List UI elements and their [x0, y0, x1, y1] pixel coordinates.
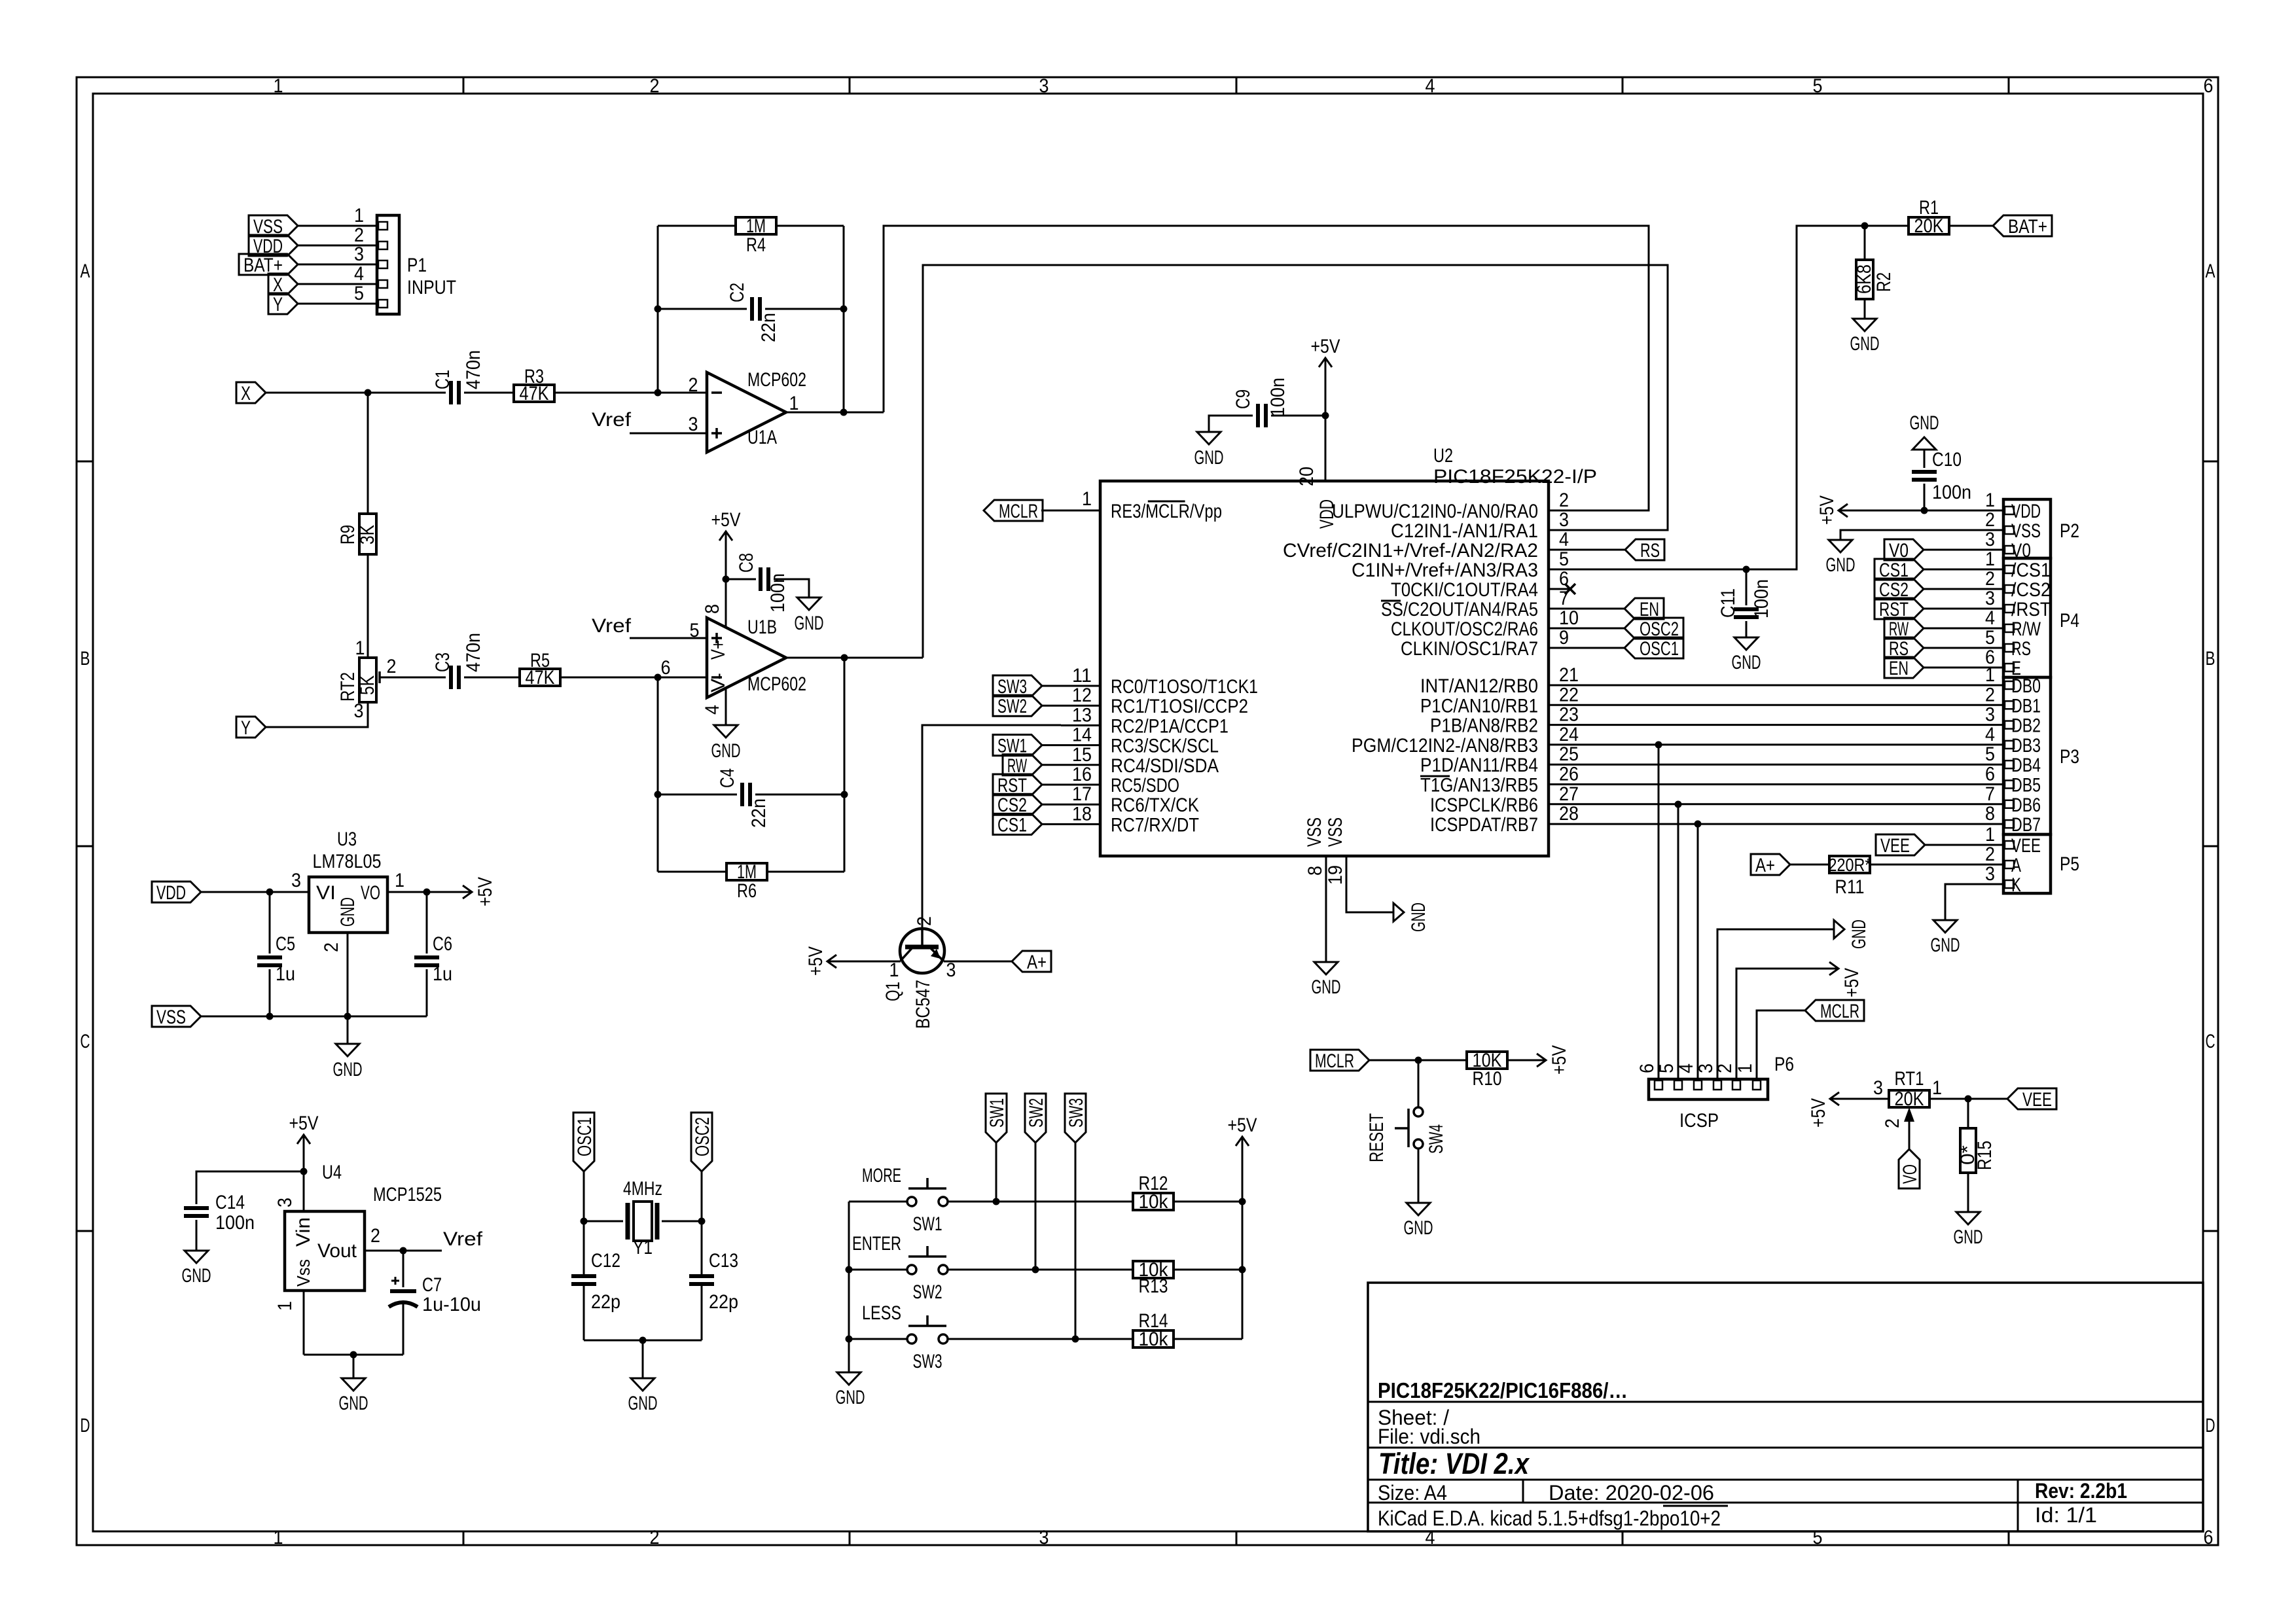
P6 pin 1	[1753, 1080, 1761, 1090]
wire OSC2 down	[701, 1171, 703, 1276]
GND left of C9	[1197, 432, 1221, 444]
U1B power riser +5V	[725, 579, 727, 628]
wire VDD to U3 VI	[201, 891, 309, 893]
junction Y1 right	[698, 1218, 706, 1225]
svg-text:D: D	[2206, 1415, 2215, 1436]
wire R3 to U1A pin2	[554, 392, 707, 394]
resistor R14	[1133, 1330, 1174, 1347]
switch SW1 MORE	[907, 1197, 916, 1206]
GND below C11	[1734, 637, 1758, 650]
svg-text:26: 26	[1559, 764, 1579, 785]
svg-text:2: 2	[1985, 509, 1995, 531]
svg-text:CLKIN/OSC1/RA7: CLKIN/OSC1/RA7	[1401, 638, 1538, 660]
svg-text:VSS: VSS	[1304, 817, 1325, 847]
svg-text:Title: VDI 2.x: Title: VDI 2.x	[1378, 1447, 1530, 1480]
resistor R11	[1790, 864, 1829, 866]
svg-text:DB7: DB7	[2011, 814, 2041, 836]
wire SW1 label down	[996, 1143, 997, 1202]
P4 pin 3 /RST	[1924, 608, 2003, 610]
svg-text:3: 3	[1985, 588, 1995, 609]
svg-text:OSC1: OSC1	[574, 1117, 596, 1156]
svg-text:SW2: SW2	[913, 1281, 942, 1303]
resistor R13	[1133, 1261, 1174, 1278]
resistor R15	[1967, 1099, 1969, 1128]
svg-text:1: 1	[1985, 664, 1995, 686]
svg-text:MCP602: MCP602	[747, 673, 806, 695]
svg-text:DB0: DB0	[2011, 675, 2041, 697]
P5 body	[2003, 834, 2051, 893]
label RW at P4 pin 4	[1884, 618, 1924, 639]
svg-text:5K: 5K	[357, 675, 378, 695]
P6 pin 2	[1732, 1080, 1740, 1090]
wire C2 right	[765, 308, 844, 310]
svg-text:A: A	[81, 260, 90, 282]
svg-text:2: 2	[1559, 490, 1569, 511]
svg-text:VSS: VSS	[2011, 520, 2041, 542]
svg-text:VDD: VDD	[2011, 501, 2041, 522]
junction pin6 feedback	[655, 674, 662, 681]
label VEE at P5 pin1	[1876, 834, 1925, 855]
svg-text:5: 5	[1813, 75, 1823, 97]
+5V above U4	[303, 1135, 305, 1153]
svg-text:1: 1	[789, 393, 799, 414]
svg-text:Q1: Q1	[882, 982, 904, 1001]
svg-text:A: A	[2011, 855, 2021, 876]
svg-text:K: K	[2011, 874, 2021, 896]
svg-text:13: 13	[1072, 704, 1092, 726]
svg-text:R3: R3	[524, 366, 544, 387]
svg-text:1: 1	[1734, 1063, 1756, 1073]
svg-text:ICSP: ICSP	[1679, 1110, 1719, 1132]
svg-text:6: 6	[1636, 1063, 1658, 1073]
resistor R10	[1467, 1052, 1507, 1069]
svg-text:22: 22	[1559, 684, 1579, 705]
svg-text:3: 3	[1039, 75, 1049, 97]
svg-text:R9: R9	[337, 525, 359, 544]
wire RB2 to P3 DB2	[1549, 724, 2003, 726]
trimmer RT2 body	[359, 658, 376, 702]
label SW3 at U2 left	[993, 675, 1042, 696]
GND right of pin19	[1393, 903, 1404, 921]
svg-text:17: 17	[1072, 783, 1092, 805]
svg-text:C5: C5	[276, 933, 295, 955]
RT1 pin1 wire to VEE	[1929, 1098, 2007, 1100]
overline on bpo10+2	[1663, 1505, 1728, 1507]
svg-text:MCP602: MCP602	[747, 369, 806, 391]
wire SW3 to R14	[948, 1338, 1134, 1340]
svg-text:MCP1525: MCP1525	[373, 1184, 442, 1205]
svg-text:C10: C10	[1932, 449, 1962, 471]
U4 pin3 vertical	[303, 1171, 305, 1211]
svg-text:8: 8	[1304, 866, 1326, 876]
svg-text:3: 3	[946, 959, 956, 981]
svg-text:RC6/TX/CK: RC6/TX/CK	[1111, 794, 1199, 816]
svg-text:+5V: +5V	[1311, 336, 1340, 357]
svg-text:1: 1	[395, 870, 404, 891]
wire RB4 to P3 DB4	[1549, 764, 2003, 766]
P3 pin 6 DB5	[2005, 781, 2014, 789]
switch SW4 reset	[1418, 1060, 1420, 1107]
riser ICSP pin3 to GND	[1717, 929, 1834, 1079]
svg-text:P1: P1	[407, 255, 427, 276]
svg-text:GND: GND	[795, 613, 824, 634]
svg-text:MORE: MORE	[862, 1165, 901, 1186]
R15 to GND	[1967, 1173, 1969, 1212]
left rail of switches	[848, 1202, 850, 1339]
wire Y to RT2 pin3	[266, 702, 368, 727]
svg-text:C4: C4	[717, 768, 738, 788]
svg-text:SW1: SW1	[913, 1213, 942, 1235]
label MCLR at U2 pin1	[984, 500, 1043, 521]
label RW at U2 left	[1003, 755, 1042, 776]
svg-text:R6: R6	[737, 880, 757, 902]
svg-text:R5: R5	[530, 650, 550, 671]
svg-text:R4: R4	[746, 234, 766, 256]
svg-text:Y: Y	[241, 717, 251, 739]
svg-text:+5V: +5V	[1841, 968, 1863, 997]
svg-text:3: 3	[1873, 1077, 1883, 1099]
Q1 collector wire to A+	[944, 961, 1012, 963]
wire RB1 to P3 DB1	[1549, 704, 2003, 706]
capacitor C5	[269, 892, 271, 954]
P1 pin 1 stub	[298, 225, 377, 227]
P3 body	[2003, 677, 2051, 834]
P4 pin 1 /CS1	[1924, 569, 2003, 571]
switch SW2 ENTER	[907, 1265, 916, 1274]
junction C8	[723, 576, 730, 583]
wire MCLR to R10	[1369, 1060, 1467, 1061]
GND below C14	[185, 1251, 208, 1263]
svg-text:+5V: +5V	[1549, 1045, 1570, 1075]
svg-text:PGM/C12IN2-/AN8/RB3: PGM/C12IN2-/AN8/RB3	[1352, 735, 1538, 757]
svg-text:6: 6	[2204, 75, 2214, 97]
svg-text:CVref/C2IN1+/Vref-/AN2/RA2: CVref/C2IN1+/Vref-/AN2/RA2	[1283, 540, 1538, 562]
junction C11 tap	[1743, 566, 1750, 573]
junction X / R9	[365, 389, 372, 397]
svg-text:14: 14	[1072, 724, 1092, 746]
Y channel riser to RA1	[923, 265, 1668, 658]
svg-text:R15: R15	[1974, 1141, 1996, 1170]
svg-text:SW1: SW1	[986, 1098, 1008, 1128]
svg-text:Vss: Vss	[293, 1259, 314, 1287]
capacitor C10	[1924, 450, 1926, 468]
svg-text:R10: R10	[1473, 1068, 1502, 1090]
svg-text:C14: C14	[215, 1192, 245, 1213]
label SW1 vertical	[986, 1094, 1007, 1143]
svg-text:GND: GND	[1404, 1217, 1433, 1239]
label SW1 at U2 left	[993, 735, 1042, 756]
svg-text:1: 1	[355, 637, 365, 659]
svg-text:MCLR: MCLR	[999, 501, 1038, 522]
svg-text:28: 28	[1559, 803, 1579, 825]
svg-text:C3: C3	[432, 652, 454, 672]
svg-text:P2: P2	[2060, 520, 2079, 542]
svg-text:100n: 100n	[1267, 378, 1289, 417]
junction output U1B	[841, 654, 848, 662]
P2 pin2 VSS wire to GND	[1840, 530, 2003, 540]
svg-text:3: 3	[1559, 509, 1569, 531]
svg-text:X: X	[241, 383, 251, 404]
svg-text:3K: 3K	[357, 525, 378, 544]
wire SW1 to R12	[948, 1201, 1134, 1203]
svg-text:+5V: +5V	[1228, 1115, 1257, 1136]
svg-text:Vref: Vref	[443, 1228, 483, 1250]
svg-text:File: vdi.sch: File: vdi.sch	[1378, 1425, 1480, 1448]
capacitor C14	[184, 1206, 209, 1210]
P6 pin 4	[1694, 1080, 1702, 1090]
transistor Q1 BC547	[900, 929, 944, 973]
svg-text:SW4: SW4	[1426, 1124, 1447, 1154]
P4 body	[2003, 558, 2051, 677]
U3 body	[309, 877, 387, 933]
junction C6 top	[423, 889, 431, 896]
wire SW3 label down	[1075, 1143, 1077, 1339]
svg-text:3: 3	[1039, 1527, 1049, 1548]
crystal Y1	[584, 1221, 623, 1222]
connector P1 body	[377, 215, 399, 314]
Q1 emitter wire to +5V	[846, 961, 901, 963]
P2 pin3 V0	[1924, 549, 2003, 551]
title block outline	[1368, 1283, 2203, 1531]
svg-text:4: 4	[1985, 607, 1995, 629]
svg-text:220R*: 220R*	[1829, 855, 1871, 875]
X channel riser to RA0	[884, 226, 1649, 510]
svg-text:C12: C12	[591, 1250, 620, 1272]
svg-text:4: 4	[1985, 724, 1995, 745]
svg-text:+5V: +5V	[1816, 495, 1838, 525]
wire to SW2	[849, 1269, 907, 1271]
svg-text:5: 5	[1985, 627, 1995, 649]
junction output/feedback	[840, 409, 848, 416]
P2 pin1 VDD	[2005, 507, 2014, 514]
label CS1 at P4 pin 1	[1874, 559, 1924, 580]
capacitor C4	[658, 794, 737, 796]
svg-text:R14: R14	[1139, 1310, 1168, 1332]
P1 pin 2 stub	[298, 245, 377, 247]
junction C10 / P2 pin1	[1921, 507, 1928, 514]
svg-text:C7: C7	[422, 1274, 442, 1296]
svg-text:+5V: +5V	[475, 877, 496, 906]
U2 pin7 wire to EN label	[1588, 608, 1624, 610]
P3 pin 1 DB0	[2005, 681, 2014, 689]
svg-text:B: B	[2206, 648, 2215, 669]
label RST at U2 left	[993, 774, 1042, 795]
svg-text:A+: A+	[1027, 952, 1047, 973]
P1 pin 5 stub	[298, 303, 377, 305]
wire OSC1 down	[583, 1171, 585, 1276]
feedback right vertical	[843, 226, 845, 412]
svg-text:ICSPDAT/RB7: ICSPDAT/RB7	[1430, 814, 1538, 836]
svg-text:2: 2	[370, 1225, 380, 1247]
svg-text:RC7/RX/DT: RC7/RX/DT	[1111, 814, 1199, 836]
svg-text:5: 5	[1985, 743, 1995, 765]
P5 pin1 VEE	[1925, 844, 2003, 846]
svg-text:4: 4	[1426, 75, 1435, 97]
wire X to C1	[266, 392, 446, 394]
U2 pin9 wire to OSC1 label	[1588, 647, 1624, 649]
svg-text:DB6: DB6	[2011, 794, 2041, 816]
wire R9 to RT2	[367, 554, 369, 658]
svg-text:Rev: 2.2b1: Rev: 2.2b1	[2035, 1479, 2127, 1503]
svg-text:RT1: RT1	[1895, 1068, 1924, 1090]
svg-text:+5V: +5V	[289, 1113, 319, 1134]
svg-text:22p: 22p	[591, 1291, 620, 1313]
svg-text:GND: GND	[1826, 554, 1856, 576]
R2 to GND	[1864, 299, 1866, 319]
junction ICSP PGM	[1655, 741, 1662, 749]
svg-text:RC4/SDI/SDA: RC4/SDI/SDA	[1111, 755, 1219, 777]
svg-text:6: 6	[1985, 764, 1995, 785]
svg-text:3: 3	[1985, 704, 1995, 726]
svg-text:RS: RS	[2011, 638, 2031, 660]
svg-text:P4: P4	[2060, 610, 2079, 632]
wire C3 to R5	[464, 677, 520, 679]
svg-text:RC0/T1OSO/T1CK1: RC0/T1OSO/T1CK1	[1111, 676, 1258, 698]
wire RB7 to P3 DB7	[1549, 823, 2003, 825]
wire R4 to right leg	[776, 225, 844, 227]
wire C1 to R3	[464, 392, 514, 394]
svg-text:GND: GND	[711, 740, 741, 762]
label Y input	[236, 717, 266, 738]
GND below U4	[342, 1378, 365, 1391]
svg-text:+5V: +5V	[805, 946, 827, 976]
label SW2 at U2 left	[993, 695, 1042, 716]
label RS at pin4	[1625, 539, 1664, 560]
label VDD input	[152, 882, 201, 902]
label VO vertical	[1899, 1149, 1920, 1188]
svg-text:GND: GND	[1732, 652, 1761, 673]
U3 pin2 GND vertical	[347, 933, 349, 1044]
U4 ground wire	[304, 1354, 403, 1356]
svg-text:12: 12	[1072, 685, 1092, 706]
svg-text:Size: A4: Size: A4	[1378, 1481, 1447, 1505]
junction ICSP DAT	[1695, 821, 1702, 828]
svg-text:RC5/SDO: RC5/SDO	[1111, 775, 1179, 796]
svg-text:SW3: SW3	[1066, 1098, 1087, 1128]
svg-text:11: 11	[1072, 665, 1092, 687]
svg-text:C12IN1-/AN1/RA1: C12IN1-/AN1/RA1	[1391, 520, 1538, 542]
RT1 wiper arrow from VO	[1909, 1119, 1910, 1149]
label MCLR at ICSP	[1805, 1000, 1864, 1021]
svg-text:KiCad E.D.A. kicad 5.1.5+dfsg: KiCad E.D.A. kicad 5.1.5+dfsg1-2bpo10+2	[1378, 1507, 1721, 1530]
svg-text:R12: R12	[1139, 1173, 1168, 1194]
label BAT+ right	[1993, 215, 2052, 236]
P2 body	[2003, 499, 2051, 558]
capacitor C1	[449, 381, 453, 404]
svg-text:EN: EN	[1889, 658, 1909, 679]
svg-text:R/W: R/W	[2011, 618, 2041, 640]
junction C4 right	[841, 791, 848, 798]
svg-text:Vref: Vref	[592, 409, 632, 431]
P3 pin 8 DB7	[2005, 820, 2014, 828]
svg-text:GND: GND	[1910, 412, 1939, 434]
svg-text:/CS2: /CS2	[2011, 579, 2051, 601]
label MCLR at reset	[1310, 1050, 1369, 1071]
svg-text:20K: 20K	[1895, 1088, 1924, 1110]
svg-text:19: 19	[1325, 865, 1346, 885]
svg-text:22n: 22n	[748, 798, 770, 828]
svg-text:1u: 1u	[433, 963, 452, 985]
svg-text:1: 1	[1932, 1077, 1942, 1099]
svg-text:1: 1	[274, 1527, 283, 1548]
svg-text:GND: GND	[836, 1387, 865, 1408]
svg-text:P3: P3	[2060, 746, 2079, 768]
svg-text:4: 4	[1559, 529, 1569, 550]
wire R10 to +5V	[1507, 1060, 1528, 1061]
P6 body	[1649, 1079, 1768, 1099]
U2 pin10 wire to OSC2 label	[1588, 628, 1624, 630]
svg-text:DB1: DB1	[2011, 695, 2041, 717]
junction C2 left	[655, 306, 662, 313]
title block vertical dividers	[1522, 1480, 1524, 1503]
svg-text:PIC18F25K22-I/P: PIC18F25K22-I/P	[1433, 466, 1597, 488]
svg-text:3: 3	[354, 243, 364, 265]
label VSS input	[152, 1006, 201, 1027]
svg-text:RESET: RESET	[1366, 1113, 1388, 1162]
svg-text:VEE: VEE	[2011, 835, 2041, 857]
GND below U3	[336, 1044, 359, 1056]
label SW2 vertical	[1025, 1094, 1046, 1143]
wire C2 left	[658, 308, 747, 310]
svg-text:RC3/SCK/SCL: RC3/SCK/SCL	[1111, 736, 1219, 757]
svg-text:T1G/AN13/RB5: T1G/AN13/RB5	[1420, 775, 1538, 796]
resistor R4	[736, 217, 776, 234]
svg-text:P1C/AN10/RB1: P1C/AN10/RB1	[1420, 695, 1538, 717]
P5 pin2 A wire	[1871, 864, 2003, 866]
P6 pin 5	[1674, 1080, 1682, 1090]
resistor R3	[514, 385, 554, 402]
svg-text:GND: GND	[182, 1265, 211, 1287]
svg-text:/CS1: /CS1	[2011, 560, 2051, 581]
label V0 at P2 pin3	[1884, 539, 1924, 560]
U1A output wire	[786, 412, 884, 414]
wire SW2 to R13	[948, 1269, 1134, 1271]
U4 body	[285, 1211, 365, 1291]
svg-text:U2: U2	[1433, 445, 1453, 467]
svg-text:5: 5	[1559, 548, 1569, 570]
label BAT+ at P1 pin3	[239, 254, 298, 275]
svg-text:RC2/P1A/CCP1: RC2/P1A/CCP1	[1111, 715, 1229, 737]
svg-text:C9: C9	[1232, 389, 1254, 409]
capacitor C3	[449, 666, 453, 689]
svg-text:GND: GND	[337, 897, 359, 927]
svg-text:GND: GND	[1848, 919, 1870, 949]
svg-text:U1B: U1B	[747, 616, 777, 638]
svg-text:RC1/T1OSI/CCP2: RC1/T1OSI/CCP2	[1111, 696, 1248, 717]
svg-text:VI: VI	[316, 882, 336, 904]
title block row lines	[1368, 1401, 2203, 1403]
svg-text:4: 4	[354, 263, 364, 285]
+5V above U1B	[725, 531, 727, 550]
svg-text:D: D	[81, 1415, 90, 1436]
wire +5V to P2 pin1	[1857, 510, 2003, 512]
U2 pin6 no-connect X	[1549, 588, 1570, 590]
svg-text:R11: R11	[1835, 876, 1865, 898]
capacitor C12	[571, 1274, 596, 1278]
wire RB0 to P3 DB0	[1549, 685, 2003, 687]
svg-text:VSS: VSS	[156, 1007, 186, 1028]
svg-text:U3: U3	[337, 829, 357, 850]
svg-text:1: 1	[889, 959, 899, 981]
label RST at P4 pin 3	[1874, 598, 1924, 619]
svg-text:100n: 100n	[1932, 482, 1971, 503]
svg-text:Id: 1/1: Id: 1/1	[2035, 1503, 2097, 1527]
svg-text:BC547: BC547	[912, 980, 934, 1029]
P3 pin 5 DB4	[2005, 760, 2014, 768]
capacitor C7 polarized	[403, 1251, 404, 1287]
svg-text:GND: GND	[1194, 447, 1224, 469]
label VSS at P1 pin1	[249, 215, 298, 236]
